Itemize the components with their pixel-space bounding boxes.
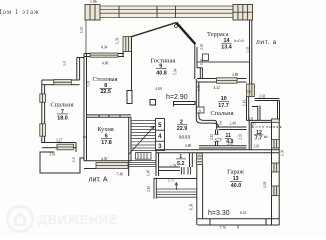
svg-text:с/у: с/у [215,136,222,142]
svg-text:1.16: 1.16 [243,100,247,106]
svg-text:Терраса: Терраса [207,31,229,38]
railing tick posts [119,6,176,18]
svg-text:4.32: 4.32 [214,86,220,90]
svg-text:Столовая: Столовая [92,76,117,83]
svg-text:4.04: 4.04 [263,182,267,188]
svg-text:22.5: 22.5 [100,89,111,95]
shaft box 8 right of hall [197,107,205,113]
svg-text:h=0.9: h=0.9 [234,39,244,43]
terrace right wall [250,20,252,84]
connector window to dining wall [122,52,124,57]
bedroom7 south door [57,144,74,150]
garage entry door hatch [197,153,203,164]
room1 door jambs [182,167,191,175]
small shaft box on terrace west wall [203,54,209,61]
watermark logo [8,207,33,232]
hall south / garage north wall [156,150,279,153]
garage south wall [198,219,280,225]
svg-text:Гараж: Гараж [227,169,244,176]
nook stub wall [252,106,260,121]
stair lower treads [129,161,157,167]
svg-text:1.86: 1.86 [90,0,97,4]
svg-text:7.79: 7.79 [220,226,226,230]
room1 east wall [190,153,193,167]
svg-text:3.02: 3.02 [246,47,250,53]
living west window [123,37,132,52]
bedroom10 north window [217,78,238,83]
svg-text:1.45: 1.45 [147,170,151,176]
room1 south wall [159,167,181,171]
terrace bottom edge [197,61,250,63]
svg-text:1.75: 1.75 [168,179,174,183]
stair number boxes [156,119,165,151]
bedroom7 west window 2 [40,124,46,136]
svg-text:40.8: 40.8 [156,70,167,76]
svg-text:2.03: 2.03 [200,44,204,50]
connector wall bedroom7 to dining [77,58,84,81]
kitchen east wall [129,117,131,176]
svg-text:18.0: 18.0 [57,116,68,122]
svg-text:4.00: 4.00 [156,87,162,91]
svg-text:6.41: 6.41 [240,211,246,215]
east wall top window [272,119,280,122]
kitchen south wall [84,161,131,169]
bedroom7 north wall [42,80,80,85]
east outer wall upper [278,101,280,121]
svg-text:2.47: 2.47 [227,142,233,146]
svg-text:Дом 1 этаж: Дом 1 этаж [0,9,40,16]
svg-text:h=2.90: h=2.90 [166,94,188,101]
stair upper treads [131,121,157,151]
svg-text:8: 8 [82,136,87,138]
svg-text:0.36: 0.36 [200,59,204,65]
svg-text:2.02: 2.02 [239,134,243,140]
east window (bedroom10 east) [247,84,255,97]
svg-text:2.10: 2.10 [210,134,214,140]
porch treads [156,189,196,197]
svg-text:0.8: 0.8 [249,117,254,121]
svg-text:22.9: 22.9 [177,126,188,132]
porch outline [40,152,84,173]
connector wall from railing down to dining wall [85,20,87,54]
svg-text:13.4: 13.4 [221,45,232,51]
east wall window 2 [272,163,280,172]
su west wall with door gap [214,130,219,147]
svg-text:ДВИЖЕНИЕ: ДВИЖЕНИЕ [38,212,118,227]
east wall window 1 [272,140,280,148]
svg-text:1.30: 1.30 [281,150,285,156]
kitchen south window [96,163,128,169]
su south wall [199,146,247,148]
wall from window east to NE corner [255,99,280,101]
svg-text:5.2: 5.2 [177,161,185,167]
svg-text:5.04: 5.04 [174,69,178,75]
porch arrow [175,183,178,191]
svg-text:6.38: 6.38 [190,204,194,210]
porch top wall [154,178,197,180]
garage west wall [197,165,203,225]
living west wall [131,37,133,91]
svg-text:4.80: 4.80 [185,144,191,148]
svg-text:4.88: 4.88 [232,73,238,77]
room1 west wall [156,150,159,176]
svg-text:лит. а: лит. а [256,39,277,46]
svg-text:4.30: 4.30 [101,157,107,161]
svg-text:1.0: 1.0 [72,157,76,162]
dining north wall [84,54,124,57]
svg-text:2.40: 2.40 [230,122,236,126]
svg-text:3.27: 3.27 [56,139,62,143]
svg-text:Кухня: Кухня [97,126,114,133]
stair arrow [129,127,155,155]
svg-text:1.35: 1.35 [80,27,84,33]
bedroom10 west wall with rounded elbow to su [196,79,218,130]
su north wall [217,127,247,130]
svg-text:2.42: 2.42 [259,95,265,99]
svg-text:h=3.30: h=3.30 [208,210,230,217]
dining west wall [84,54,87,162]
bedroom7 west window 1 [40,94,46,102]
hall north wall bar [174,102,196,107]
railing band fill [100,6,233,18]
svg-text:5.91: 5.91 [87,81,91,87]
svg-text:17.7: 17.7 [218,103,229,109]
room12 north wall [247,120,272,122]
east wall window 3 [272,186,280,196]
svg-text:0.6: 0.6 [247,89,252,93]
porch west wall [154,178,156,199]
su east / room12 west wall [247,97,252,151]
living roof diagonal left [131,23,176,37]
svg-text:1.39: 1.39 [116,38,120,44]
svg-text:3.01: 3.01 [49,153,55,157]
dining north window [90,53,118,57]
kitchen north wall [87,115,132,117]
bedroom10 north wall [197,79,247,83]
living roof diagonal right (thick) [176,23,195,44]
railing right post box [233,5,253,21]
svg-text:7.7: 7.7 [255,136,262,142]
svg-text:4.00: 4.00 [102,62,108,66]
terrace west wall [195,44,203,79]
peak circle marker [175,25,178,28]
bedroom7 west wall [42,80,45,143]
railing lines [100,6,233,18]
svg-text:17.8: 17.8 [101,140,112,146]
svg-text:Спальня: Спальня [210,110,233,117]
bedroom7 south wall [42,143,76,153]
east wall lower solid segments [272,119,280,225]
svg-text:3.01: 3.01 [254,145,260,149]
svg-text:40.0: 40.0 [231,183,242,189]
svg-text:лит. А: лит. А [89,177,108,184]
svg-text:4.34: 4.34 [101,46,107,50]
svg-text:Гостиная: Гостиная [151,57,176,64]
pillar 1 [127,91,132,104]
svg-text:Спальня: Спальня [50,102,73,109]
stair mid landing [136,153,152,160]
svg-text:3.03: 3.03 [197,85,201,91]
svg-text:холл: холл [179,134,191,140]
railing left post box [85,5,100,21]
svg-text:2.10: 2.10 [147,186,151,192]
svg-text:7.40: 7.40 [117,173,123,177]
svg-text:Котельная: Котельная [252,124,282,129]
svg-text:3.0: 3.0 [63,61,67,66]
svg-text:0.8: 0.8 [219,120,223,125]
pillar 2 [150,100,156,106]
svg-text:1.78: 1.78 [170,165,176,169]
bedroom7 north window [54,80,72,85]
